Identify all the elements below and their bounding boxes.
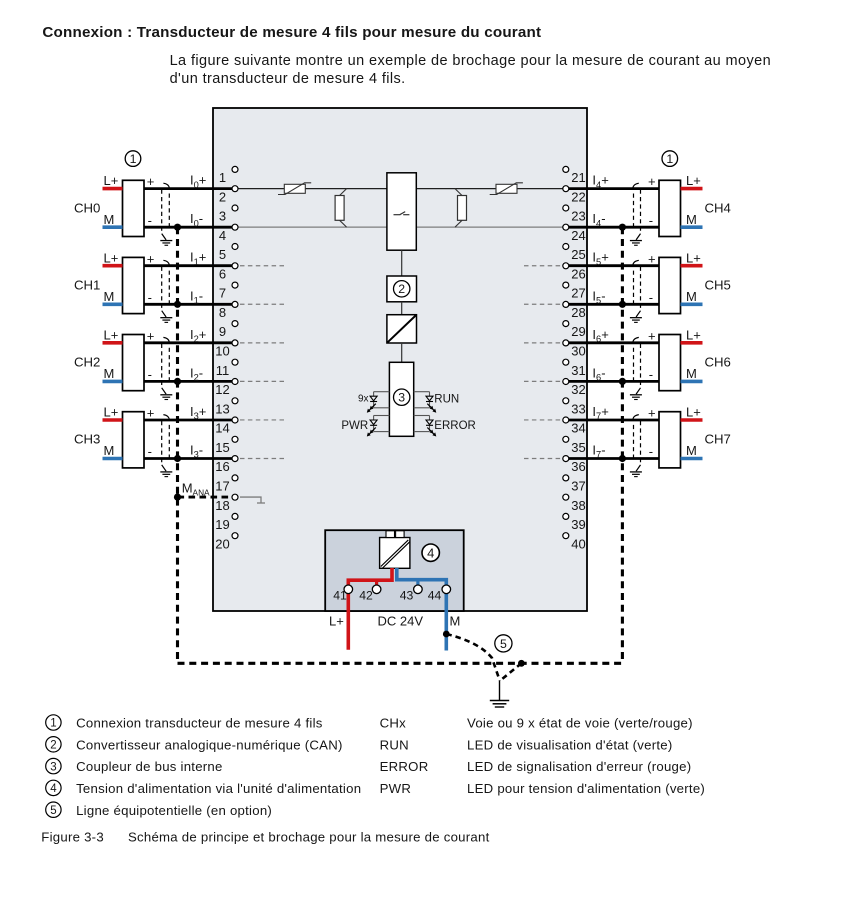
overvoltage protector (left) [278, 183, 311, 195]
internal line pin1 to multiplexer [235, 188, 387, 190]
svg-text:5: 5 [500, 637, 507, 651]
CH3 M supply wire [103, 457, 123, 461]
svg-text:L+: L+ [686, 327, 701, 342]
svg-text:20: 20 [215, 536, 229, 551]
CH1 I1- signal wire to pin [144, 303, 232, 306]
CH1 I1+ signal wire to pin [144, 264, 232, 267]
svg-text:-: - [649, 290, 653, 305]
CH4 I4- signal wire to pin [569, 226, 659, 229]
CH5 L+ supply wire [681, 264, 703, 268]
CH4 labels [592, 173, 730, 229]
CH3 cable shield [160, 415, 172, 477]
svg-text:-: - [148, 444, 152, 459]
svg-text:I6+: I6+ [592, 327, 608, 344]
junction dot on M wire [443, 631, 450, 638]
svg-text:L+: L+ [686, 173, 701, 188]
legend item 3 [46, 758, 692, 774]
svg-text:32: 32 [571, 382, 585, 397]
svg-text:23: 23 [571, 209, 585, 224]
svg-text:7: 7 [219, 286, 226, 301]
svg-text:4: 4 [427, 545, 434, 560]
svg-text:CH0: CH0 [74, 200, 100, 215]
svg-text:M: M [450, 614, 461, 629]
CH1 M supply wire [103, 302, 123, 306]
CH0 M supply wire [103, 225, 123, 229]
svg-text:10: 10 [215, 344, 229, 359]
CH0 I0+ signal wire to pin [144, 187, 232, 190]
CH1 L+ supply wire [103, 264, 123, 268]
svg-text:16: 16 [215, 459, 229, 474]
svg-text:PWR: PWR [341, 420, 368, 432]
intro paragraph [170, 53, 771, 87]
svg-text:2: 2 [398, 282, 405, 296]
svg-text:+: + [648, 328, 656, 343]
svg-text:+: + [648, 406, 656, 421]
junction dot M_ANA [174, 494, 181, 501]
DC/DC top stubs [386, 531, 404, 538]
svg-text:3: 3 [50, 761, 56, 773]
svg-text:L+: L+ [686, 405, 701, 420]
svg-text:-: - [148, 213, 152, 228]
junction dot CH2 minus to equipotential [174, 378, 181, 385]
svg-text:17: 17 [215, 479, 229, 494]
svg-text:M: M [686, 212, 697, 227]
svg-text:LED pour tension d'alimentatio: LED pour tension d'alimentation (verte) [467, 781, 705, 796]
svg-text:I5+: I5+ [592, 250, 608, 267]
multiplexer U1 [387, 173, 416, 250]
svg-text:Coupleur de bus interne: Coupleur de bus interne [76, 759, 223, 774]
svg-text:Connexion transducteur de mesu: Connexion transducteur de mesure 4 fils [76, 716, 323, 731]
svg-text:M: M [686, 443, 697, 458]
transducer CH3 (left) [123, 412, 145, 468]
svg-text:+: + [147, 328, 155, 343]
L+ feed wire (red) [348, 568, 392, 650]
svg-text:-: - [649, 367, 653, 382]
CH6 L+ supply wire [681, 341, 703, 345]
svg-text:38: 38 [571, 498, 585, 513]
left terminal circles pins 1-20 [232, 166, 238, 538]
svg-text:Convertisseur analogique-numér: Convertisseur analogique-numérique (CAN) [76, 737, 343, 752]
svg-text:CH5: CH5 [705, 277, 731, 292]
svg-text:35: 35 [571, 440, 585, 455]
svg-text:-: - [148, 290, 152, 305]
svg-text:LED de visualisation d'état (v: LED de visualisation d'état (verte) [467, 737, 673, 752]
label circled 1 (right) [662, 151, 678, 167]
DC/DC diagonal [381, 540, 410, 568]
CH0 cable shield [160, 183, 172, 245]
svg-text:I2+: I2+ [190, 327, 206, 344]
CH2 L+ supply wire [103, 341, 123, 345]
svg-text:M: M [686, 289, 697, 304]
CH2 I2- signal wire to pin [144, 380, 232, 383]
svg-text:26: 26 [571, 266, 585, 281]
CH5 I5- signal wire to pin [569, 303, 659, 306]
svg-text:9: 9 [219, 324, 226, 339]
internal line multiplexer to pin 21 [416, 188, 566, 190]
CH5 labels [592, 250, 730, 306]
CH3 I3+ signal wire to pin [144, 419, 232, 422]
svg-text:-: - [649, 444, 653, 459]
CH7 I7+ signal wire to pin [569, 419, 659, 422]
svg-text:1: 1 [666, 152, 673, 166]
svg-text:ERROR: ERROR [380, 759, 429, 774]
CH5 M supply wire [681, 302, 703, 306]
svg-text:18: 18 [215, 498, 229, 513]
CH2 labels [74, 327, 206, 383]
CH0 I0- signal wire to pin [144, 226, 232, 229]
svg-text:L+: L+ [104, 405, 119, 420]
legend item 1 [46, 715, 693, 731]
svg-text:I1-: I1- [190, 288, 203, 305]
svg-text:1: 1 [130, 152, 137, 166]
right terminal circles pins 21-40 [563, 166, 569, 538]
svg-text:44: 44 [428, 589, 442, 603]
svg-text:RUN: RUN [434, 393, 459, 405]
left shield bus (vertical thick dashed) [176, 227, 179, 663]
power supply section box [325, 530, 464, 611]
junction dot CH4 minus to equipotential [619, 224, 626, 231]
svg-text:1: 1 [50, 718, 56, 730]
junction dot CH5 minus to equipotential [619, 301, 626, 308]
svg-text:3: 3 [398, 391, 405, 405]
internal dashed lines to multiplexer (other channels, right) [524, 266, 563, 459]
svg-text:M: M [104, 212, 115, 227]
label circled 5 [495, 635, 512, 652]
svg-text:31: 31 [571, 363, 585, 378]
internal line multiplexer to pin 23 [416, 226, 566, 228]
measuring shunt resistor (left) [335, 189, 347, 228]
junction dot CH1 minus to equipotential [174, 301, 181, 308]
CH7 L+ supply wire [681, 418, 703, 422]
svg-text:+: + [648, 251, 656, 266]
measuring shunt resistor (right) [455, 189, 467, 228]
svg-text:37: 37 [571, 479, 585, 494]
svg-text:DC 24V: DC 24V [378, 614, 424, 629]
right shield bus (vertical thick dashed) [621, 227, 624, 663]
CH1 cable shield [160, 260, 172, 322]
svg-text:I1+: I1+ [190, 250, 206, 267]
junction dot CH7 minus to equipotential [619, 455, 626, 462]
CH4 M supply wire [681, 225, 703, 229]
svg-text:34: 34 [571, 421, 585, 436]
svg-text:I4+: I4+ [592, 173, 608, 190]
CH3 I3- signal wire to pin [144, 457, 232, 460]
CH7 cable shield [630, 415, 642, 477]
transducer CH1 (left) [123, 257, 145, 313]
figure caption [41, 830, 489, 845]
junction dot CH3 minus to equipotential [174, 455, 181, 462]
equipotential line (horizontal thick dashed) [178, 662, 623, 665]
galvanic isolation box [387, 315, 417, 343]
svg-text:+: + [147, 251, 155, 266]
svg-text:Figure 3-3: Figure 3-3 [41, 830, 104, 845]
wire mux to ADC [401, 250, 403, 276]
svg-text:L+: L+ [104, 250, 119, 265]
CH6 I6+ signal wire to pin [569, 341, 659, 344]
svg-text:3: 3 [219, 209, 226, 224]
legend item 4 [46, 780, 705, 796]
CH0 labels [74, 173, 206, 229]
svg-text:5: 5 [50, 805, 56, 817]
internal dashed lines to multiplexer (other channels, left) [240, 266, 284, 459]
CH4 cable shield [630, 183, 642, 245]
wire ADC to isolation [401, 302, 403, 315]
label circled 3 [394, 389, 410, 405]
CH7 labels [592, 404, 730, 460]
legend item 2 [46, 737, 673, 753]
LED PWR [341, 416, 389, 437]
LED 9x channel status [358, 392, 389, 413]
optional equipotential bond (dashed curve) [446, 634, 499, 681]
svg-text:Tension d'alimentation via l'u: Tension d'alimentation via l'unité d'ali… [76, 781, 361, 796]
svg-text:I2-: I2- [190, 365, 203, 382]
svg-text:LED de signalisation d'erreur: LED de signalisation d'erreur (rouge) [467, 759, 691, 774]
svg-text:M: M [686, 366, 697, 381]
transducer CH2 (left) [123, 335, 145, 391]
svg-text:41: 41 [333, 589, 347, 603]
svg-text:I7-: I7- [592, 443, 605, 460]
svg-text:+: + [147, 406, 155, 421]
svg-text:15: 15 [215, 440, 229, 455]
svg-text:19: 19 [215, 517, 229, 532]
M feed wire (blue) [397, 568, 447, 651]
svg-text:29: 29 [571, 324, 585, 339]
svg-text:5: 5 [219, 247, 226, 262]
internal M_ANA reference line [240, 497, 265, 503]
terminal numbers 41-44 [333, 589, 441, 603]
junction dot on equipotential line [518, 660, 525, 667]
CH3 L+ supply wire [103, 418, 123, 422]
internal line pin3 to multiplexer (analog ground) [235, 226, 387, 228]
svg-text:CH4: CH4 [705, 200, 731, 215]
svg-text:CH7: CH7 [705, 432, 731, 447]
svg-text:L+: L+ [104, 173, 119, 188]
svg-text:2: 2 [50, 740, 56, 752]
svg-text:11: 11 [216, 363, 230, 378]
CH5 I5+ signal wire to pin [569, 264, 659, 267]
svg-text:24: 24 [571, 228, 585, 243]
svg-text:36: 36 [571, 459, 585, 474]
legend item 5 [46, 802, 272, 818]
svg-text:L+: L+ [329, 614, 344, 629]
transducer CH7 (right) [659, 412, 681, 468]
svg-text:CHx: CHx [380, 716, 407, 731]
svg-text:40: 40 [571, 536, 585, 551]
svg-text:CH2: CH2 [74, 355, 100, 370]
svg-text:Voie ou 9 x état de voie (vert: Voie ou 9 x état de voie (verte/rouge) [467, 716, 693, 731]
transducer CH6 (right) [659, 335, 681, 391]
svg-text:9x: 9x [358, 394, 369, 405]
svg-text:I4-: I4- [592, 211, 605, 228]
svg-text:I3-: I3- [190, 443, 203, 460]
LED ERROR [414, 416, 476, 437]
svg-text:14: 14 [215, 421, 229, 436]
transducer CH5 (right) [659, 257, 681, 313]
CH3 labels [74, 404, 206, 460]
CH5 cable shield [630, 260, 642, 322]
CH2 M supply wire [103, 380, 123, 384]
CH1 labels [74, 250, 206, 306]
svg-text:La figure suivante montre un e: La figure suivante montre un exemple de … [170, 53, 771, 69]
svg-text:PWR: PWR [380, 781, 412, 796]
svg-text:L+: L+ [104, 327, 119, 342]
svg-text:I0+: I0+ [190, 173, 206, 190]
svg-text:33: 33 [571, 401, 585, 416]
svg-text:25: 25 [571, 247, 585, 262]
svg-text:21: 21 [571, 170, 585, 185]
wire isolation to bus coupler [401, 343, 403, 362]
isolation diagonal [388, 315, 416, 342]
svg-text:M: M [104, 289, 115, 304]
CH6 I6- signal wire to pin [569, 380, 659, 383]
svg-text:1: 1 [219, 170, 226, 185]
label circled 1 (left) [125, 151, 141, 167]
svg-text:-: - [148, 367, 152, 382]
terminals 41-44 [344, 585, 451, 594]
CH7 I7- signal wire to pin [569, 457, 659, 460]
CH0 L+ supply wire [103, 187, 123, 191]
svg-text:I0-: I0- [190, 211, 203, 228]
svg-text:I7+: I7+ [592, 404, 608, 421]
svg-text:RUN: RUN [380, 737, 409, 752]
CH2 cable shield [160, 337, 172, 399]
label circled 4 [422, 544, 439, 561]
transducer CH0 (left) [123, 180, 145, 236]
svg-text:MANA: MANA [182, 480, 210, 497]
svg-text:30: 30 [571, 344, 585, 359]
internal bus coupler U3 [389, 362, 413, 436]
CH4 I4+ signal wire to pin [569, 187, 659, 190]
svg-text:6: 6 [219, 266, 226, 281]
earth ground symbol [490, 681, 509, 708]
CH6 labels [592, 327, 730, 383]
svg-text:13: 13 [215, 401, 229, 416]
svg-text:CH6: CH6 [705, 355, 731, 370]
transducer CH4 (right) [659, 180, 681, 236]
svg-text:CH3: CH3 [74, 432, 100, 447]
M_ANA dashed wire to pin 17 [178, 496, 233, 499]
svg-text:12: 12 [215, 382, 229, 397]
stub to terminal 43 [416, 580, 419, 587]
svg-text:4: 4 [219, 228, 226, 243]
svg-text:M: M [104, 366, 115, 381]
svg-text:Ligne équipotentielle (en opti: Ligne équipotentielle (en option) [76, 803, 272, 818]
svg-text:+: + [147, 174, 155, 189]
svg-text:39: 39 [571, 517, 585, 532]
right pin numbers 21-40 [571, 170, 585, 551]
svg-text:M: M [104, 443, 115, 458]
junction dot CH6 minus to equipotential [619, 378, 626, 385]
svg-text:28: 28 [571, 305, 585, 320]
svg-text:Connexion : Transducteur de me: Connexion : Transducteur de mesure 4 fil… [42, 24, 541, 41]
svg-text:Schéma de principe et brochage: Schéma de principe et brochage pour la m… [128, 830, 490, 845]
module body (analog input module) [213, 108, 587, 611]
svg-text:43: 43 [400, 589, 414, 603]
multiplexer switch symbol [394, 212, 410, 215]
power labels [329, 614, 460, 629]
stub to terminal 42 [375, 580, 378, 587]
svg-text:2: 2 [219, 189, 226, 204]
DC/DC converter box [380, 538, 410, 569]
CH2 I2+ signal wire to pin [144, 341, 232, 344]
svg-text:ERROR: ERROR [434, 420, 476, 432]
svg-text:I3+: I3+ [190, 404, 206, 421]
svg-text:L+: L+ [686, 250, 701, 265]
CH7 M supply wire [681, 457, 703, 461]
svg-text:4: 4 [50, 783, 57, 795]
CH4 L+ supply wire [681, 187, 703, 191]
svg-text:I5-: I5- [592, 288, 605, 305]
LED RUN [414, 392, 460, 413]
ADC box U2 [387, 276, 417, 302]
svg-text:+: + [648, 174, 656, 189]
svg-text:CH1: CH1 [74, 277, 100, 292]
svg-text:42: 42 [359, 589, 373, 603]
dashed branch from equipotential line [500, 663, 521, 680]
CH6 M supply wire [681, 380, 703, 384]
CH6 cable shield [630, 337, 642, 399]
left pin numbers 1-20 [215, 170, 229, 551]
junction dot CH0 minus to equipotential [174, 224, 181, 231]
overvoltage protector (right) [490, 183, 523, 195]
label circled 2 [394, 281, 410, 297]
svg-text:8: 8 [219, 305, 226, 320]
svg-text:22: 22 [571, 189, 585, 204]
svg-text:I6-: I6- [592, 365, 605, 382]
svg-text:-: - [649, 213, 653, 228]
svg-text:27: 27 [571, 286, 585, 301]
svg-text:d'un transducteur de mesure 4: d'un transducteur de mesure 4 fils. [170, 71, 406, 87]
